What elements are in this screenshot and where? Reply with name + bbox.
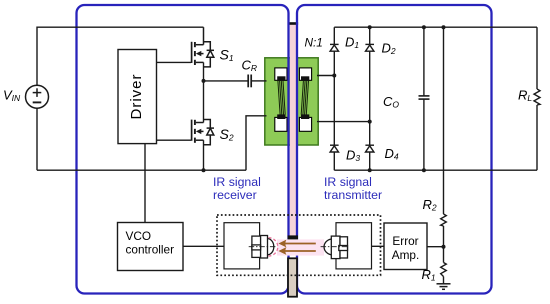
- wire: midpoint node to CR: [204, 80, 249, 82]
- diode D4: [365, 145, 374, 152]
- capacitor CO: [419, 96, 430, 99]
- wire: S2 gate lead from Driver: [157, 139, 192, 141]
- node: secondary top / bridge left junction: [332, 74, 336, 78]
- svg-text:transmitter: transmitter: [324, 188, 382, 202]
- wire: bridge left leg D1/D3: [333, 27, 335, 170]
- transistor S1 (MOSFET with body diode): [192, 27, 214, 67]
- transformer T1 secondary winding window (top-right slot): [299, 68, 311, 80]
- resistor R2: [441, 214, 447, 226]
- IR receiver optical axis centerline: [249, 246, 277, 248]
- wire: transformer secondary top pin to bridge: [317, 75, 334, 77]
- IR beam glow: [277, 239, 324, 255]
- IR beam arrow upper: [278, 240, 315, 248]
- wire: CO branch bottom: [423, 99, 425, 170]
- node: D4 bottom rail junction: [368, 168, 372, 172]
- isolation barrier black cap above IR window: [288, 235, 298, 239]
- ground: [437, 284, 451, 290]
- svg-text:Amp.: Amp.: [392, 248, 420, 262]
- isolation barrier bar (pink, upper part): [290, 23, 296, 236]
- diode D3: [330, 145, 339, 152]
- wire: S1 source to midpoint node: [203, 62, 205, 81]
- diode D1: [330, 44, 339, 51]
- IR receiver lens wavefront (pink dashed arc): [269, 238, 278, 256]
- capacitor CR: [248, 75, 251, 88]
- wire: feedback divider top to R2: [443, 27, 445, 214]
- wire: bottom right rail: [334, 169, 537, 171]
- transformer T1 primary winding end-bar top: [277, 76, 285, 81]
- svg-text:VCO: VCO: [126, 229, 152, 243]
- node: CO bottom rail junction: [422, 168, 426, 172]
- wire: top right rail: [334, 26, 537, 28]
- IR photodetector (receiver device): [252, 236, 274, 259]
- IR receiver module box: [224, 223, 260, 269]
- IR LED (transmitter device): [324, 236, 347, 259]
- wire: bottom-left rail: [37, 169, 246, 171]
- secondary-side enclosure (blue rounded box, right): [297, 5, 492, 294]
- transformer T1 primary winding window (top-left slot): [275, 68, 287, 80]
- wire: transformer secondary bottom pin to bridge: [317, 121, 370, 123]
- diode D2: [365, 44, 374, 51]
- IR transmitter optical axis centerline: [321, 246, 349, 248]
- wire: CO branch top: [423, 27, 425, 95]
- wire: S2 source to bottom-left rail: [203, 140, 205, 170]
- error amplifier block U3: [384, 223, 427, 270]
- transistor S2 (MOSFET with body diode): [192, 120, 214, 145]
- resistor RL: [534, 89, 540, 105]
- svg-text:N:1: N:1: [305, 36, 323, 50]
- isolation barrier top black cap: [289, 22, 299, 25]
- voltage source VIN: [26, 85, 49, 108]
- wire: S1 gate lead from Driver: [157, 61, 192, 63]
- transformer T1 primary winding end-bar bottom: [277, 114, 285, 119]
- svg-text:Driver: Driver: [128, 74, 145, 120]
- node: Error Amp feedback junction: [442, 245, 446, 249]
- wire: Driver to VCO controller: [144, 144, 146, 223]
- wire: Error Amp output to feedback node: [427, 246, 444, 248]
- wire: S2 drain from midpoint node: [203, 81, 205, 123]
- svg-text:Error: Error: [392, 234, 418, 248]
- VCO controller block U2: [118, 223, 184, 271]
- node: CO top rail junction: [422, 25, 426, 29]
- node: secondary bottom / bridge right junction: [368, 120, 372, 124]
- transformer T1 core (green body): [265, 58, 318, 145]
- IR transmitter module box: [336, 223, 372, 269]
- wire: VCO controller to IR receiver module: [183, 245, 224, 247]
- IR coupler outer dashed box: [217, 215, 381, 275]
- wire: CR to transformer primary top pin: [251, 80, 266, 82]
- transformer T1 secondary winding end-bar bottom: [301, 114, 309, 119]
- resistor R1: [441, 263, 447, 277]
- driver block U1: [118, 50, 157, 144]
- svg-text:controller: controller: [126, 243, 175, 257]
- wire: top left rail from VIN to S1 drain: [37, 27, 204, 85]
- wire: IR transmitter module to Error Amp: [372, 245, 385, 247]
- transformer T1 primary winding turns: [278, 81, 285, 115]
- node: S2 source / bottom rail junction: [202, 168, 206, 172]
- transformer T1 secondary winding window (bottom-right slot): [299, 117, 311, 131]
- node: S1/S2 midpoint junction: [202, 79, 206, 83]
- isolation barrier bar (tan, below IR window): [288, 258, 297, 296]
- wire: transformer primary return: [246, 116, 267, 170]
- wire: RL branch top: [536, 27, 538, 89]
- transformer T1 primary winding window (bottom-left slot): [275, 117, 287, 131]
- wire: R1 to ground: [443, 277, 445, 284]
- node: divider top rail junction: [442, 25, 446, 29]
- wire: bridge right leg D2/D4: [369, 27, 371, 170]
- IR beam arrow lower: [278, 247, 315, 255]
- node: D2 top rail junction: [368, 25, 372, 29]
- wire: VIN bottom to bottom-left rail: [36, 108, 38, 170]
- wire: R2 to feedback node: [443, 226, 445, 263]
- transformer T1 secondary winding turns: [301, 81, 308, 115]
- wire: RL branch bottom: [536, 105, 538, 170]
- svg-text:receiver: receiver: [213, 188, 257, 202]
- primary-side enclosure (blue rounded box, left): [77, 5, 289, 294]
- transformer T1 secondary winding end-bar top: [301, 76, 309, 81]
